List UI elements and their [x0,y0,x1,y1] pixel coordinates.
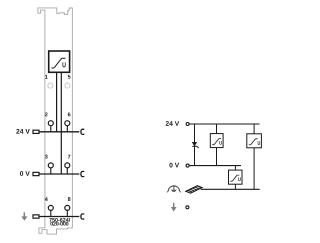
external connector rect [33,130,39,133]
wire: U3 bottom pin to earth rail [253,148,255,190]
external connector rect [33,172,39,175]
wire: U3 top pin [253,124,255,134]
wire: U1 pin to 0V rail [60,72,62,174]
terminal 6 label [68,112,71,116]
diode D1 (zener) [192,142,199,148]
power module U1: limiter box with ramp symbol [49,51,70,72]
terminal 1 (gray) [48,83,53,88]
external connector rect [33,215,39,218]
legend gray arrow [171,203,177,212]
part number 750-624/ [49,218,70,222]
filter U2 [210,134,223,148]
terminal 5 (gray) [65,83,70,88]
wire: 24V rail [189,123,259,125]
terminal 2 label [45,112,48,116]
terminal 5 label [68,75,71,79]
filter U3 [247,134,262,148]
shield flag [186,186,202,193]
node 24V terminal [186,123,189,126]
wire: diode branch [194,124,196,166]
terminal 7 label [68,155,71,159]
terminal 8 [65,205,70,216]
terminal 7 [65,163,70,174]
legend terminal circle [186,206,189,209]
terminal 3 label [45,155,48,159]
filter U4 [229,170,243,184]
label 24 V [16,129,30,134]
field supply arrow (gray) [21,212,27,220]
module body outline [38,8,72,234]
wire: U4 top pin [234,166,236,171]
terminal 6 [65,121,70,132]
terminal 3 [48,163,53,174]
earth electrode symbol [167,185,181,192]
label 0 V [20,171,30,176]
cage clamp [81,214,84,219]
node 0V label [169,163,179,168]
rail wire [39,131,79,133]
node 24V label [166,121,180,126]
wire: U2 bottom pin [216,148,218,166]
rail wire [39,173,79,175]
wire: U4 bottom pin [234,184,236,189]
terminal 2 [48,121,53,132]
wire: U2 top pin [216,124,218,134]
wire: earth rail [201,188,260,190]
terminal 8 label [68,197,71,201]
node 0V terminal [186,164,189,167]
rail wire [39,216,79,218]
terminal 4 label [45,197,48,201]
part number 020-000 [50,222,68,226]
terminal 1 label [45,75,48,79]
cage clamp [81,129,84,134]
wire: U1 pin to 24V rail [56,72,58,132]
wire: 0V rail [189,165,241,167]
terminal 4 [48,205,53,216]
cage clamp [81,171,84,176]
